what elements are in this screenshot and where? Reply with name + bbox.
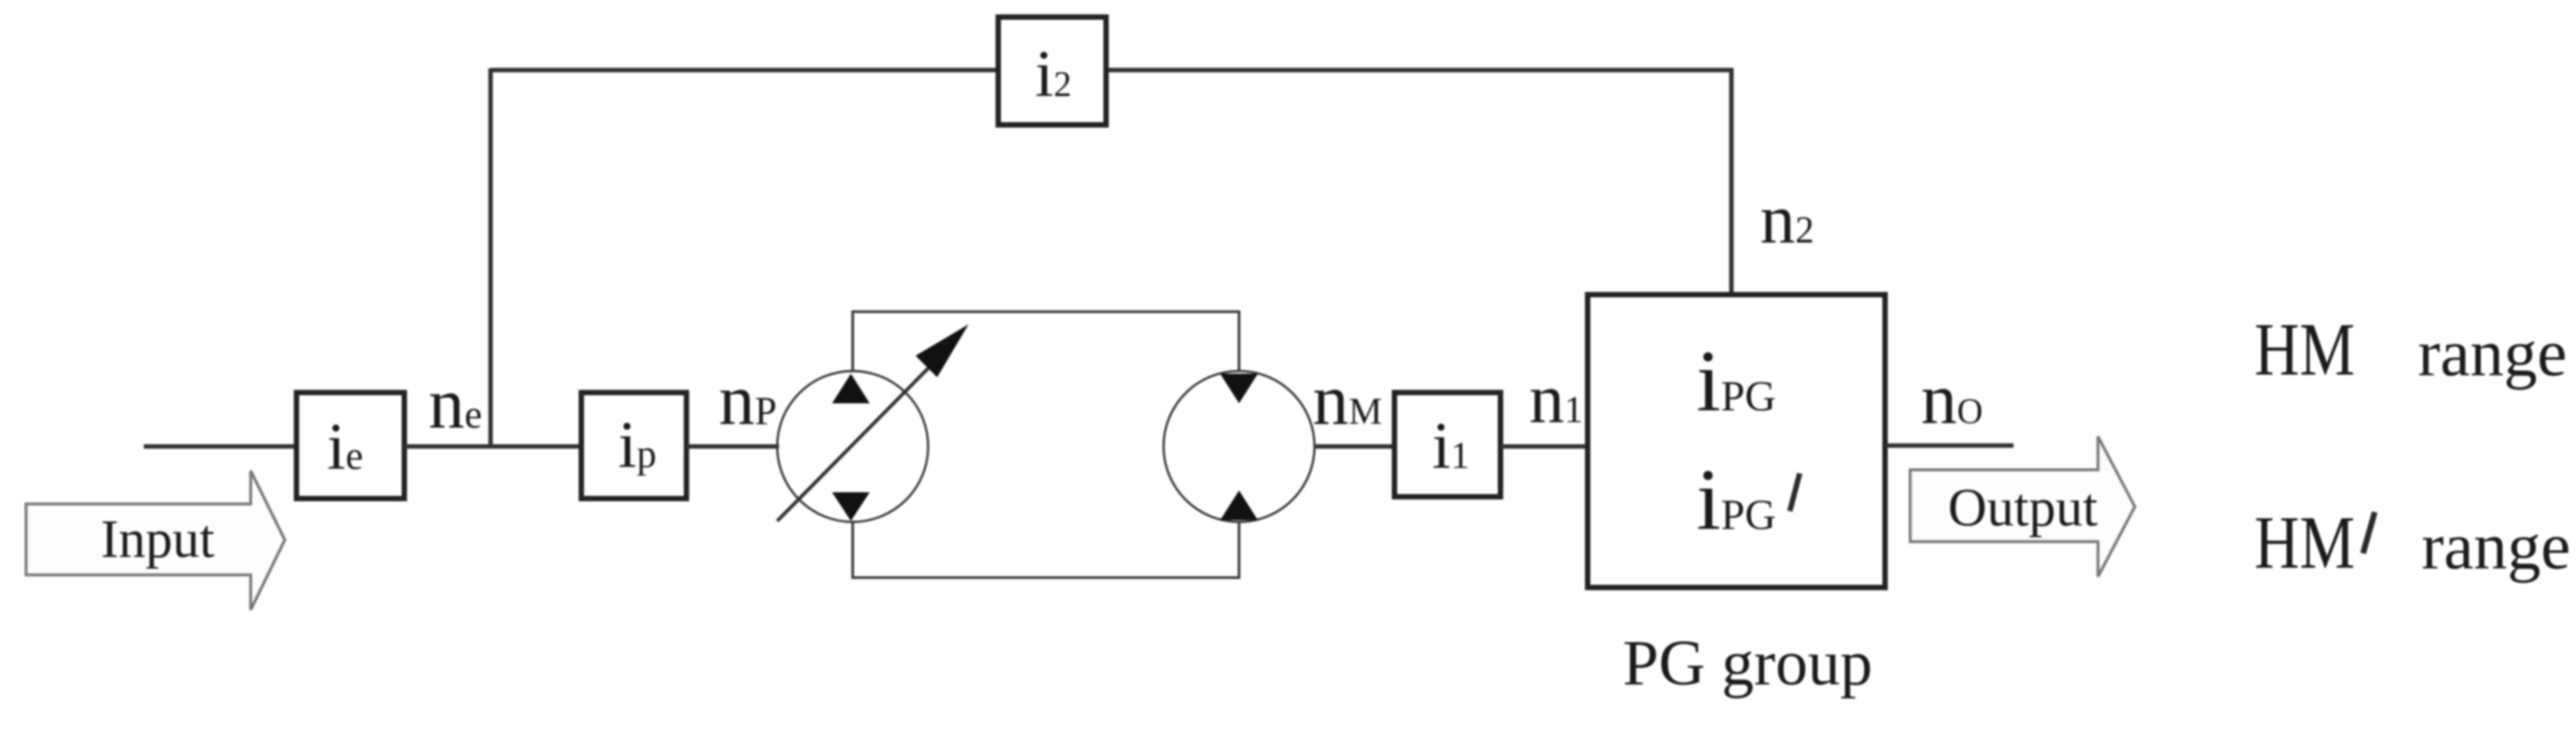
pump bottom triangle — [832, 492, 870, 521]
svg-text:nP: nP — [719, 361, 776, 440]
wire: left vertical from feedback to shaft node ne — [489, 68, 493, 446]
svg-text:n1: n1 — [1529, 359, 1583, 437]
svg-text:Output: Output — [1948, 478, 2098, 537]
variable displacement arrow shaft — [777, 366, 931, 521]
svg-text:range: range — [2418, 317, 2567, 391]
wire: output shaft nO — [1885, 444, 2014, 448]
wire: top feedback right horizontal — [1104, 68, 1733, 73]
svg-text:HM: HM — [2254, 501, 2355, 585]
svg-text:nO: nO — [1921, 360, 1983, 439]
svg-text:range: range — [2421, 510, 2571, 584]
svg-text:Input: Input — [101, 509, 215, 569]
hydraulic loop top line — [853, 312, 1239, 371]
hydraulic loop bottom line — [853, 522, 1239, 578]
svg-text:PG group: PG group — [1623, 627, 1872, 699]
box i2 — [998, 17, 1106, 125]
box i1 — [1394, 393, 1500, 497]
wire: motor to i1 — [1315, 445, 1396, 449]
wire: shaft ie to ip — [404, 445, 582, 449]
prime mark of iPG' — [1790, 473, 1800, 511]
wire: right vertical n2 into PG box — [1730, 68, 1734, 296]
box ip — [581, 393, 686, 499]
wire: i1 to PG box — [1500, 445, 1589, 449]
box ie — [297, 393, 404, 499]
svg-text:n2: n2 — [1760, 180, 1814, 258]
motor circle — [1164, 371, 1315, 522]
prime mark of HM' — [2363, 512, 2375, 553]
pump top triangle — [832, 374, 870, 403]
variable displacement arrow head — [916, 324, 969, 377]
pump circle — [777, 371, 928, 522]
motor top triangle — [1220, 374, 1258, 403]
wire: input shaft left segment — [144, 445, 299, 449]
box PG group — [1588, 295, 1885, 587]
svg-text:ne: ne — [429, 365, 482, 444]
Output block arrow — [1910, 437, 2135, 577]
wire: top feedback left horizontal — [491, 68, 1000, 73]
motor bottom triangle — [1220, 490, 1258, 520]
Input block arrow — [26, 471, 285, 610]
wire: shaft ip to pump — [686, 445, 779, 449]
svg-text:nM: nM — [1313, 361, 1382, 440]
svg-text:HM: HM — [2254, 308, 2355, 392]
